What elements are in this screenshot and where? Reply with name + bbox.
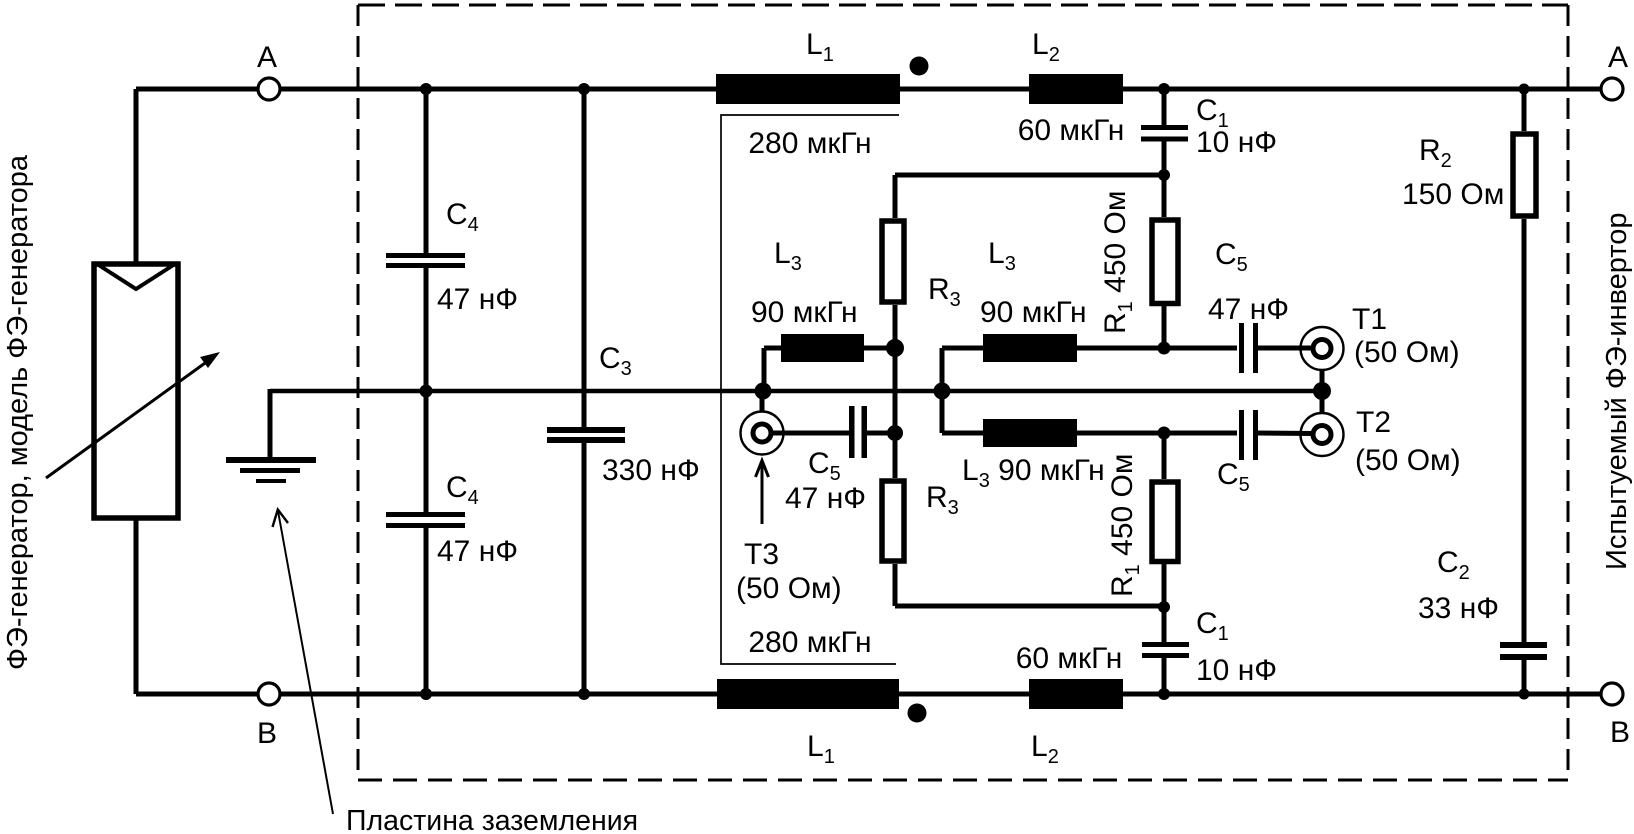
svg-text:T2: T2 [1356,406,1391,439]
svg-text:A: A [257,41,277,74]
svg-text:B: B [257,717,277,750]
svg-text:(50 Ом): (50 Ом) [1354,336,1460,369]
svg-text:T1: T1 [1352,303,1387,336]
svg-text:60 мкГн: 60 мкГн [1016,642,1123,675]
svg-text:R1 450 Ом: R1 450 Ом [1106,454,1144,597]
svg-text:Испытуемый ФЭ-инвертор: Испытуемый ФЭ-инвертор [1601,212,1633,570]
svg-text:Пластина заземления: Пластина заземления [346,805,638,834]
svg-text:B: B [1610,716,1630,749]
svg-text:150 Ом: 150 Ом [1402,178,1504,211]
svg-text:47 нФ: 47 нФ [1208,293,1289,326]
svg-text:47 нФ: 47 нФ [437,283,518,316]
svg-text:330 нФ: 330 нФ [602,454,700,487]
svg-text:A: A [1608,41,1628,74]
svg-text:90 мкГн: 90 мкГн [751,296,858,329]
svg-text:(50 Ом): (50 Ом) [1355,444,1461,477]
svg-text:R1 450 Ом: R1 450 Ом [1099,191,1137,334]
svg-text:10 нФ: 10 нФ [1196,126,1277,159]
svg-text:ФЭ-генератор, модель ФЭ-генера: ФЭ-генератор, модель ФЭ-генератора [2,154,34,670]
svg-text:280 мкГн: 280 мкГн [748,626,871,659]
svg-text:10 нФ: 10 нФ [1196,654,1277,687]
svg-text:33 нФ: 33 нФ [1418,592,1499,625]
svg-text:47 нФ: 47 нФ [785,482,866,515]
svg-text:60 мкГн: 60 мкГн [1018,114,1125,147]
svg-text:47 нФ: 47 нФ [437,535,518,568]
svg-text:(50 Ом): (50 Ом) [736,572,842,605]
svg-text:280 мкГн: 280 мкГн [748,127,871,160]
svg-text:T3: T3 [744,538,779,571]
svg-text:90 мкГн: 90 мкГн [980,296,1087,329]
